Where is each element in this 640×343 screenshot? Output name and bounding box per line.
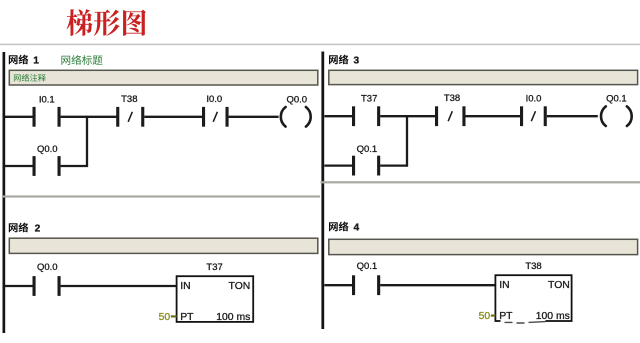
- coil Q0.0: [281, 107, 311, 127]
- svg-text:50: 50: [479, 311, 491, 322]
- left power rail: [3, 52, 6, 333]
- svg-text:Q0.0: Q0.0: [37, 262, 58, 273]
- wire: contact T38 to contact I0.0: [466, 115, 521, 117]
- svg-text:I0.0: I0.0: [526, 93, 542, 104]
- svg-text:T38: T38: [121, 94, 137, 105]
- wire: net1 rail to parallel contact Q0.0: [5, 165, 33, 167]
- svg-text:T38: T38: [525, 261, 541, 272]
- network 3 comment bar (empty): [329, 70, 638, 84]
- wire: net4 rail to contact Q0.1: [324, 284, 352, 286]
- network 1 title text 网络标题: [61, 55, 102, 65]
- contact T37: [352, 106, 380, 126]
- wire: parallel contact Q0.0 to branch junction: [61, 165, 88, 167]
- network 4 separator line: [321, 181, 640, 183]
- svg-text:I0.1: I0.1: [39, 94, 55, 105]
- contact I0.0 (normally closed): [202, 107, 229, 127]
- svg-text:PT: PT: [180, 312, 194, 323]
- wire: contact Q0.0 to timer T37 IN: [61, 285, 177, 287]
- svg-text:T37: T37: [206, 262, 222, 273]
- wire: contact Q0.1 to timer T38 IN: [380, 284, 496, 286]
- network 1 comment text 网络注释: [14, 74, 46, 82]
- svg-text:Q0.1: Q0.1: [357, 144, 378, 155]
- network 3 top separator: [320, 44, 640, 46]
- contact I0.1: [33, 107, 61, 127]
- wire: contact I0.0 to coil Q0.0: [229, 116, 279, 118]
- network 2 header label 网络 2: [9, 223, 41, 235]
- wire: parallel contact Q0.1 to branch junction: [380, 164, 408, 166]
- wire: net3 rail to parallel contact Q0.1: [324, 164, 352, 166]
- tick: 50 to PT pin: [171, 315, 177, 317]
- svg-text:T37: T37: [361, 94, 377, 105]
- svg-text:2: 2: [35, 223, 41, 234]
- right column power rail: [321, 52, 324, 330]
- wire: contact I0.1 to contact T38 (through branch node): [61, 116, 117, 118]
- svg-text:50: 50: [159, 312, 171, 323]
- contact Q0.1 (net4): [352, 275, 380, 295]
- network 1 comment bar: [9, 70, 318, 85]
- timer box T37 (TON): [177, 276, 254, 322]
- contact T38 (normally closed): [116, 107, 144, 127]
- network 1 header label 网络 1: [9, 55, 39, 67]
- svg-text:T38: T38: [444, 93, 460, 104]
- svg-text:TON: TON: [229, 281, 251, 292]
- contact I0.0 (normally closed, net3): [520, 106, 547, 126]
- page title 梯形图 (Ladder Diagram): [67, 9, 146, 36]
- svg-text:4: 4: [354, 222, 360, 233]
- svg-text:Q0.0: Q0.0: [286, 94, 307, 105]
- network 2 comment bar (empty): [9, 238, 318, 253]
- svg-text:PT: PT: [499, 311, 513, 322]
- svg-text:100 ms: 100 ms: [216, 312, 250, 323]
- contact Q0.1 (parallel branch): [352, 156, 380, 176]
- svg-text:Q0.0: Q0.0: [37, 144, 58, 155]
- svg-text:IN: IN: [180, 281, 190, 292]
- wire: contact I0.0 to coil Q0.1: [547, 115, 598, 117]
- svg-text:TON: TON: [548, 280, 570, 291]
- svg-text:1: 1: [33, 55, 39, 66]
- network 1 top separator: [0, 44, 320, 46]
- wire: vertical branch junction net1: [86, 116, 88, 167]
- contact T38 (normally closed, net3): [435, 106, 466, 126]
- wire: net2 rail to contact Q0.0: [5, 285, 33, 287]
- dashed artifact along T38 box bottom: [505, 322, 546, 323]
- wire: net1 rail to contact I0.1: [5, 116, 33, 118]
- network 4 header label 网络 4: [329, 222, 360, 234]
- coil Q0.1: [601, 106, 632, 126]
- wire: net3 rail to contact T37: [324, 115, 352, 117]
- network 2 separator line: [2, 195, 320, 197]
- svg-text:Q0.1: Q0.1: [606, 93, 627, 104]
- wire: contact T37 to contact T38 (through branch node): [380, 115, 435, 117]
- timer box T38 (TON): [495, 275, 571, 321]
- wire: contact T38 to contact I0.0: [144, 116, 203, 118]
- wire: vertical branch junction net3: [406, 115, 408, 166]
- erased segment of T38 box bottom border (watermark artifact): [501, 320, 546, 323]
- contact Q0.0 (parallel branch): [33, 156, 61, 176]
- network 3 header label 网络 3: [329, 55, 360, 67]
- network 4 comment bar (empty): [329, 239, 638, 254]
- svg-text:100 ms: 100 ms: [536, 311, 570, 322]
- svg-text:3: 3: [354, 55, 360, 66]
- svg-text:IN: IN: [499, 280, 509, 291]
- tick: 50 to PT pin (T38): [491, 315, 496, 317]
- contact Q0.0 (net2): [33, 276, 61, 296]
- svg-text:Q0.1: Q0.1: [357, 261, 378, 272]
- svg-text:I0.0: I0.0: [206, 94, 222, 105]
